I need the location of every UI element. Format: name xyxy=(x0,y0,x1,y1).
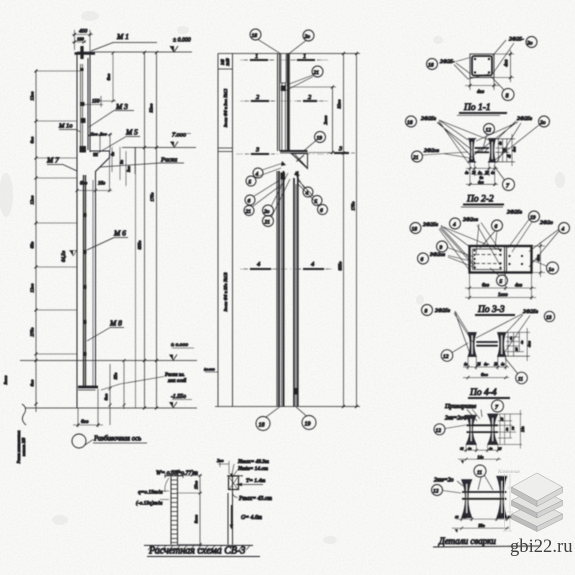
svg-text:М 3: М 3 xyxy=(115,102,128,111)
small level mark left xyxy=(205,371,218,373)
svg-text:М 1: М 1 xyxy=(116,32,129,41)
svg-text:12оо: 12оо xyxy=(30,283,35,293)
svg-text:2Ф25г: 2Ф25г xyxy=(523,309,539,315)
svg-text:8ооо: 8ооо xyxy=(194,515,199,523)
svg-text:4о: 4о xyxy=(520,340,524,344)
svg-text:5: 5 xyxy=(249,180,252,186)
detail2 bottom dims xyxy=(452,518,509,529)
svg-text:2Ф25г: 2Ф25г xyxy=(517,116,533,122)
svg-text:2ооо: 2ооо xyxy=(323,115,328,125)
top box xyxy=(227,475,243,477)
svg-text:75: 75 xyxy=(511,426,515,430)
svg-text:2Ф2о: 2Ф2о xyxy=(540,220,553,226)
svg-text:55о: 55о xyxy=(113,372,118,380)
bottom line -1.550 xyxy=(25,407,197,409)
rebar dots 3-3 xyxy=(473,249,523,269)
dashed rebar lines xyxy=(476,254,501,256)
svg-text:4оо: 4оо xyxy=(505,59,510,67)
right dims 4-4 xyxy=(506,328,530,361)
svg-text:3Ф2ог: 3Ф2ог xyxy=(429,252,446,258)
watermark dim lines xyxy=(502,474,513,531)
svg-text:45: 45 xyxy=(508,154,512,158)
svg-text:6: 6 xyxy=(421,257,424,263)
callout 19 s3 xyxy=(529,211,540,222)
svg-text:19: 19 xyxy=(305,422,311,428)
svg-text:58о: 58о xyxy=(479,523,485,528)
svg-text:15оо: 15оо xyxy=(194,481,199,489)
corbel bar xyxy=(280,150,308,152)
bottom callout 18 xyxy=(256,417,270,431)
callout 5 s3 xyxy=(497,275,508,286)
svg-text:4оо: 4оо xyxy=(478,180,484,184)
bottom anchor bar xyxy=(78,386,98,389)
MIDDLE-ELEVATION xyxy=(204,29,360,431)
callout 6b s3 xyxy=(492,220,503,231)
svg-text:4о.: 4о. xyxy=(478,171,483,175)
web 2-2 xyxy=(475,147,490,149)
section cut dash-dot lines xyxy=(236,60,334,269)
detail1 web xyxy=(467,424,498,426)
joint upper verticals xyxy=(278,54,280,152)
right dim verticals xyxy=(145,52,157,408)
top dim 400 xyxy=(72,30,93,52)
svg-text:4о: 4о xyxy=(464,363,468,367)
section mark 1 xyxy=(244,53,321,60)
callout 8 s1 xyxy=(502,89,514,101)
SECTIONS xyxy=(406,37,570,399)
panel top edge xyxy=(218,53,360,55)
svg-text:gbi22.ru: gbi22.ru xyxy=(510,536,573,557)
svg-text:±о.ооо: ±о.ооо xyxy=(204,368,215,372)
svg-text:6о: 6о xyxy=(480,176,484,180)
svg-text:6оо: 6оо xyxy=(30,136,35,144)
svg-text:петель М6: петель М6 xyxy=(21,438,26,456)
svg-text:По 1-1: По 1-1 xyxy=(463,103,491,113)
inner liner upper xyxy=(81,64,83,150)
svg-text:4о: 4о xyxy=(501,363,505,367)
svg-text:14о: 14о xyxy=(478,454,484,459)
section 2-2 beam xyxy=(469,139,475,162)
svg-text:2Ф25г: 2Ф25г xyxy=(423,222,439,228)
svg-text:7.ооо: 7.ооо xyxy=(172,132,186,139)
svg-text:Разбивочная ось: Разбивочная ось xyxy=(93,436,141,443)
svg-text:19: 19 xyxy=(530,215,536,221)
svg-text:2шв=2о: 2шв=2о xyxy=(434,478,454,484)
section mark 4 xyxy=(244,261,330,269)
svg-text:6: 6 xyxy=(495,224,498,230)
svg-text:15: 15 xyxy=(460,446,464,450)
svg-text:1: 1 xyxy=(255,53,258,60)
svg-text:4о: 4о xyxy=(465,171,469,175)
svg-text:175о: 175о xyxy=(150,192,155,202)
liner black mark xyxy=(281,86,286,92)
callout 13 s4 xyxy=(544,311,554,321)
callout 6 s3 xyxy=(418,253,429,264)
svg-text:3ооо: 3ооо xyxy=(3,375,8,385)
section 3-3 rect xyxy=(470,246,532,273)
svg-text:2оо: 2оо xyxy=(217,458,224,463)
svg-text:М 7: М 7 xyxy=(46,156,59,165)
svg-text:Nmin= 14.от: Nmin= 14.от xyxy=(237,466,268,472)
table strip verticals xyxy=(218,54,233,407)
svg-text:15: 15 xyxy=(500,417,504,421)
svg-text:М 5: М 5 xyxy=(125,128,138,137)
callout 20 s2 xyxy=(539,116,550,127)
svg-text:± о.ооо: ± о.ооо xyxy=(171,342,188,348)
slab stack top xyxy=(512,473,563,507)
corbel small dims xyxy=(112,147,135,186)
ground line 0.000 xyxy=(20,360,197,362)
svg-text:6оо: 6оо xyxy=(106,73,111,81)
svg-text:3оо: 3оо xyxy=(126,166,131,172)
dims below 2-2 xyxy=(466,162,498,186)
svg-text:4о: 4о xyxy=(491,171,495,175)
svg-text:4о: 4о xyxy=(509,336,513,340)
callout 11 s4 xyxy=(516,372,528,384)
callout 18 top xyxy=(250,29,261,40)
detail1 left flange xyxy=(466,415,476,444)
svg-text:2вн=2оФ: 2вн=2оФ xyxy=(445,416,468,422)
svg-text:9о: 9о xyxy=(119,160,124,164)
svg-text:18: 18 xyxy=(412,227,418,233)
svg-text:М 6: М 6 xyxy=(113,229,126,238)
svg-text:25: 25 xyxy=(485,171,489,175)
svg-text:4о: 4о xyxy=(468,446,472,450)
svg-text:6оо: 6оо xyxy=(482,284,490,289)
svg-text:1: 1 xyxy=(303,53,306,60)
callout 9 s3 xyxy=(437,241,448,252)
svg-text:4оо: 4оо xyxy=(527,341,532,347)
dim 600 upper right xyxy=(95,53,116,101)
lower column inner lines xyxy=(84,175,86,387)
section mark 3 xyxy=(245,146,355,155)
svg-text:6о: 6о xyxy=(110,152,115,156)
bottom callout 19 xyxy=(302,416,316,430)
svg-text:25: 25 xyxy=(472,171,476,175)
svg-text:По 4-4: По 4-4 xyxy=(469,388,497,398)
svg-text:21: 21 xyxy=(314,70,320,76)
right dims 2-2 xyxy=(496,134,516,166)
callout 4r s3 xyxy=(559,223,570,234)
right callout fan xyxy=(303,187,313,197)
svg-text:2Ф25г: 2Ф25г xyxy=(421,116,437,122)
svg-text:68о: 68о xyxy=(30,241,35,249)
svg-text:4оо: 4оо xyxy=(515,284,523,289)
svg-text:18: 18 xyxy=(259,423,265,429)
joint lower verticals xyxy=(276,171,278,407)
svg-text:18: 18 xyxy=(407,120,413,126)
svg-text:2о: 2о xyxy=(540,120,546,126)
callout 18 s1 xyxy=(427,59,438,70)
svg-text:13: 13 xyxy=(546,315,552,321)
svg-text:(-о.13q)т/м: (-о.13q)т/м xyxy=(136,500,163,507)
web 4-4 xyxy=(476,341,498,343)
dims below 3-3 xyxy=(465,273,536,300)
column left edge xyxy=(76,52,78,408)
callout 12 s4 xyxy=(441,350,453,362)
svg-text:14о: 14о xyxy=(521,426,525,432)
axis circle xyxy=(72,434,86,448)
callout 21 upper xyxy=(312,66,323,77)
top level line xyxy=(77,51,192,53)
svg-text:12оо: 12оо xyxy=(30,195,35,205)
svg-text:6оо: 6оо xyxy=(481,372,489,377)
svg-text:Детали сварки: Детали сварки xyxy=(438,536,496,546)
svg-text:275о: 275о xyxy=(30,327,35,337)
anchor M1 top bars xyxy=(75,52,96,55)
rebar dots 1-1 xyxy=(474,58,490,74)
section 4-4 beam xyxy=(468,333,476,357)
svg-text:Nmax= 48.3т: Nmax= 48.3т xyxy=(237,459,269,465)
slab stack bottom xyxy=(512,502,563,532)
svg-text:8: 8 xyxy=(425,309,428,315)
svg-text:25: 25 xyxy=(515,347,519,351)
callout 7 s2 xyxy=(503,179,515,191)
svg-text:175о: 175о xyxy=(351,201,356,211)
svg-text:Т= 1.4т: Т= 1.4т xyxy=(246,478,265,484)
pier dim chain xyxy=(199,476,201,545)
detail2 web xyxy=(462,491,506,493)
svg-text:4о-: 4о- xyxy=(484,363,490,367)
svg-text:75: 75 xyxy=(503,148,507,152)
callout 18 s3 xyxy=(410,223,421,234)
svg-text:12оо: 12оо xyxy=(30,91,35,101)
svg-text:15: 15 xyxy=(508,515,512,519)
svg-text:9: 9 xyxy=(440,245,443,251)
callout 19 corbel xyxy=(315,132,326,143)
svg-text:2о: 2о xyxy=(527,41,533,47)
svg-text:2Ф2ог: 2Ф2ог xyxy=(424,148,440,154)
LEFT-ELEVATION xyxy=(3,28,197,465)
svg-text:№19: №19 xyxy=(226,58,230,66)
svg-text:19: 19 xyxy=(317,136,323,142)
svg-text:12: 12 xyxy=(436,428,442,434)
dim 400 bottom s1 xyxy=(465,78,499,90)
svg-text:4: 4 xyxy=(453,221,456,228)
strip dividers xyxy=(218,69,233,152)
svg-text:6оо: 6оо xyxy=(30,379,35,387)
left callout fan xyxy=(253,168,263,178)
svg-text:64,5о: 64,5о xyxy=(62,250,67,262)
column upper right edge xyxy=(88,52,90,152)
ground line xyxy=(144,544,253,546)
svg-text:4оо: 4оо xyxy=(477,90,485,95)
svg-text:мех осей: мех осей xyxy=(167,378,187,384)
callout 11 d2 xyxy=(474,465,486,477)
svg-text:400: 400 xyxy=(79,28,88,35)
svg-text:3осм Ф6 и 3оо №12: 3осм Ф6 и 3оо №12 xyxy=(223,88,228,127)
svg-text:2оо: 2оо xyxy=(91,132,99,137)
svg-text:Рmax= 43.от: Рmax= 43.от xyxy=(238,495,272,502)
callout 10 s3 xyxy=(547,262,559,274)
dim right 3-3 xyxy=(532,242,546,277)
corbel gusset xyxy=(292,154,308,169)
svg-text:По 3-3: По 3-3 xyxy=(477,305,505,315)
svg-text:21: 21 xyxy=(265,220,271,226)
svg-text:6: 6 xyxy=(320,208,323,214)
svg-text:855о: 855о xyxy=(137,240,142,250)
svg-text:4о: 4о xyxy=(498,515,502,519)
left pier xyxy=(171,477,178,545)
svg-text:М 1о: М 1о xyxy=(58,123,73,130)
svg-text:4о: 4о xyxy=(505,427,509,431)
detail1 bottom dims xyxy=(458,445,501,459)
right column line xyxy=(228,477,233,545)
section 1-1 square xyxy=(470,54,494,78)
svg-text:855о: 855о xyxy=(338,261,343,271)
svg-text:32оо: 32оо xyxy=(337,99,342,109)
svg-text:1ооо: 1ооо xyxy=(498,293,508,298)
callout 20 s1 xyxy=(526,37,537,48)
callout 12 s2 xyxy=(484,124,495,135)
svg-text:25: 25 xyxy=(477,363,481,367)
svg-text:6: 6 xyxy=(248,199,251,205)
callout 20 top xyxy=(303,30,314,41)
svg-text:12: 12 xyxy=(433,489,439,495)
svg-text:8: 8 xyxy=(506,94,509,100)
callout 12 d1 xyxy=(434,424,445,435)
svg-text:18: 18 xyxy=(252,33,258,39)
liner tie marks xyxy=(80,68,87,356)
bottom dim 600 xyxy=(73,389,103,427)
svg-text:Расчетная схема СВ-3: Расчетная схема СВ-3 xyxy=(148,546,245,557)
callout 18 s2 xyxy=(406,116,417,127)
squiggle xyxy=(22,404,26,425)
CALC-SCHEME xyxy=(136,458,272,557)
detail1 right flange xyxy=(488,414,498,445)
svg-text:12: 12 xyxy=(443,354,449,360)
svg-text:4о: 4о xyxy=(463,515,467,519)
section mark 2 xyxy=(245,94,323,101)
corbel outline xyxy=(90,151,110,387)
svg-text:5: 5 xyxy=(500,279,503,285)
svg-text:2о: 2о xyxy=(305,34,311,40)
svg-text:Приварите: Приварите xyxy=(444,403,476,410)
svg-text:18: 18 xyxy=(428,63,434,69)
svg-text:± 0.000: ± 0.000 xyxy=(173,38,191,44)
svg-text:21: 21 xyxy=(246,209,252,215)
svg-text:12: 12 xyxy=(486,128,492,134)
svg-text:2о: 2о xyxy=(264,209,270,215)
callout 21 s2 xyxy=(412,151,423,162)
svg-text:Компания: Компания xyxy=(497,469,520,475)
callout 4 s3 xyxy=(450,218,461,229)
long dim 3200/8550 xyxy=(343,54,345,407)
svg-text:Риска: Риска xyxy=(160,157,177,164)
svg-text:4о: 4о xyxy=(499,141,503,145)
svg-text:6оо: 6оо xyxy=(81,420,89,425)
svg-text:1о: 1о xyxy=(549,267,555,273)
svg-text:G= 4.6т: G= 4.6т xyxy=(241,514,262,521)
svg-text:2Ф25-: 2Ф25- xyxy=(509,37,524,43)
dim 2000 xyxy=(290,87,336,153)
svg-text:2Ф25г: 2Ф25г xyxy=(435,308,451,314)
left dim chain vertical xyxy=(35,70,37,412)
detail2 left flange xyxy=(462,480,472,518)
dims below 4-4 xyxy=(463,357,509,370)
svg-text:25: 25 xyxy=(494,363,498,367)
svg-text:15: 15 xyxy=(455,515,459,519)
svg-text:4оо: 4оо xyxy=(513,146,517,152)
svg-text:5: 5 xyxy=(315,199,318,205)
callout 8 s4 xyxy=(422,305,433,316)
svg-text:6оо: 6оо xyxy=(104,393,109,401)
slab stack middle xyxy=(512,488,563,518)
WELD-DETAILS xyxy=(432,400,541,547)
svg-text:Риски пл.: Риски пл. xyxy=(164,373,185,378)
extension lines xyxy=(36,71,80,354)
svg-text:345: 345 xyxy=(221,59,225,65)
watermark logo xyxy=(497,469,573,557)
svg-text:16о: 16о xyxy=(98,182,106,187)
dim 400 right s1 xyxy=(494,50,514,82)
svg-text:21: 21 xyxy=(413,155,419,161)
svg-text:2Ф25г: 2Ф25г xyxy=(507,210,523,216)
svg-text:q=о.19т/м: q=о.19т/м xyxy=(138,490,163,496)
svg-text:4о: 4о xyxy=(489,446,493,450)
svg-text:11: 11 xyxy=(477,470,482,476)
svg-text:М 8: М 8 xyxy=(109,319,122,328)
svg-text:150: 150 xyxy=(92,100,100,105)
callout 12 d2 xyxy=(432,485,443,496)
svg-text:180: 180 xyxy=(77,37,85,42)
svg-text:15: 15 xyxy=(498,446,502,450)
svg-text:2Ф25-: 2Ф25- xyxy=(440,59,455,65)
dim 550/600 right of column bottom xyxy=(110,361,124,426)
panel bottom edge xyxy=(215,406,360,408)
svg-text:4оо: 4оо xyxy=(536,254,541,261)
upper liner xyxy=(281,54,286,83)
svg-text:-1.55о: -1.55о xyxy=(171,394,186,400)
svg-text:2Ф2ог: 2Ф2ог xyxy=(463,217,479,223)
joint black marks xyxy=(281,173,299,395)
svg-text:3осм Ф6 и 35о №1В: 3осм Ф6 и 35о №1В xyxy=(223,272,228,311)
svg-text:По 2-2: По 2-2 xyxy=(466,195,494,205)
tick marks xyxy=(35,70,38,406)
ladder rungs xyxy=(171,480,178,543)
svg-text:32оо: 32оо xyxy=(149,103,154,113)
svg-text:4: 4 xyxy=(562,226,565,233)
svg-text:11: 11 xyxy=(518,377,523,383)
detail1 right dims xyxy=(498,410,522,449)
detail2 right flange xyxy=(497,476,507,518)
arrow mark on joint xyxy=(281,161,286,166)
